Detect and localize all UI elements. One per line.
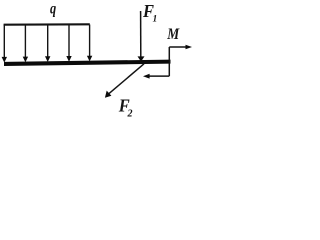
bottom arrow left <box>149 75 170 77</box>
svg-text:M: M <box>166 26 180 43</box>
svg-text:2: 2 <box>127 109 133 120</box>
moment M symbol <box>143 45 192 79</box>
svg-text:1: 1 <box>153 15 158 25</box>
top arrow right <box>169 46 186 48</box>
force F2 arrow (diagonal) <box>105 64 144 98</box>
q arrow 2 <box>23 25 28 63</box>
q arrow 1 <box>2 25 7 63</box>
svg-text:q: q <box>50 1 56 18</box>
force F1 arrow <box>138 11 145 62</box>
q arrow 3 <box>45 25 50 63</box>
distributed load q top line <box>4 23 90 25</box>
beam <box>4 60 171 66</box>
q arrow 5 <box>87 25 92 62</box>
q arrow 4 <box>66 25 71 62</box>
vertical line <box>168 47 170 76</box>
